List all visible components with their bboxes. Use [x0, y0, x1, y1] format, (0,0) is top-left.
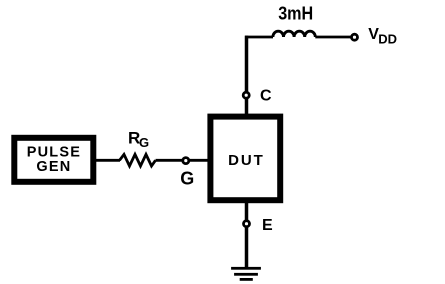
label VDD: [368, 26, 397, 46]
pulse generator box: [14, 138, 93, 182]
ground: [231, 267, 261, 281]
node E: [244, 221, 250, 227]
inductor L 3mH: [273, 31, 315, 37]
svg-text:DD: DD: [378, 31, 397, 46]
svg-text:GEN: GEN: [36, 159, 71, 175]
label G: [180, 169, 194, 189]
label RG: [128, 128, 149, 150]
wire: DUT emitter down to ground: [245, 201, 249, 268]
resistor RG: [120, 154, 156, 166]
wire: inductor to VDD terminal: [315, 36, 351, 39]
svg-text:G: G: [180, 169, 194, 189]
label E: [262, 217, 273, 234]
label PULSE GEN: [27, 145, 81, 175]
label 3mH: [278, 4, 313, 24]
label C: [260, 87, 272, 104]
terminal VDD: [352, 34, 358, 40]
svg-text:DUT: DUT: [228, 152, 265, 169]
svg-text:E: E: [262, 217, 273, 234]
wire: resistor to DUT gate: [156, 159, 211, 162]
svg-text:3mH: 3mH: [278, 4, 313, 24]
node C: [243, 92, 249, 98]
wire: DUT collector up and across to inductor: [245, 36, 273, 116]
svg-text:G: G: [139, 135, 149, 150]
label DUT: [228, 152, 265, 169]
wire: pulse gen to resistor: [95, 159, 120, 162]
svg-text:C: C: [260, 87, 272, 104]
DUT box: [210, 117, 280, 201]
node G: [183, 158, 189, 164]
